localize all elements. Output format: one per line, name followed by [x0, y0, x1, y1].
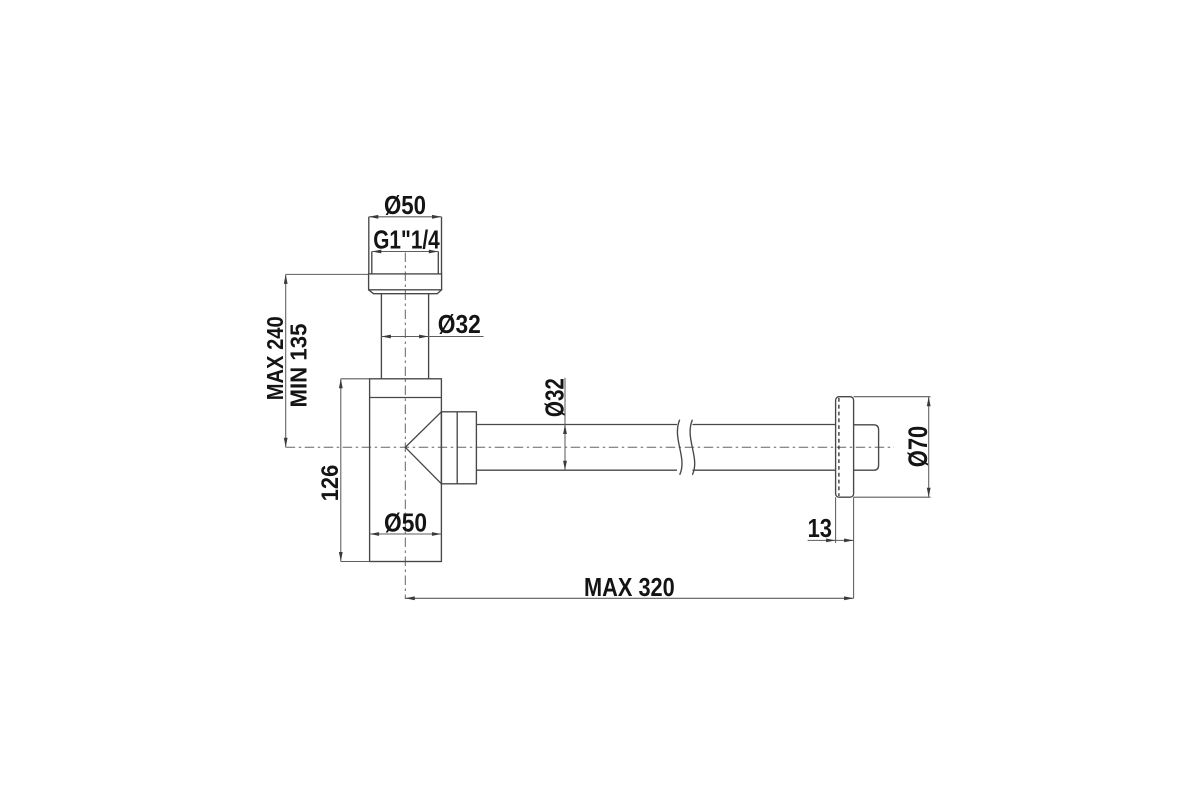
svg-text:MAX 320: MAX 320: [584, 574, 675, 602]
svg-text:Ø32: Ø32: [542, 378, 570, 417]
svg-text:Ø70: Ø70: [903, 426, 933, 468]
svg-text:Ø32: Ø32: [438, 311, 481, 339]
svg-text:MIN 135: MIN 135: [285, 323, 311, 407]
svg-text:MAX 240: MAX 240: [262, 316, 288, 400]
svg-text:Ø50: Ø50: [384, 192, 426, 220]
svg-text:13: 13: [808, 515, 832, 543]
svg-text:126: 126: [317, 465, 344, 502]
svg-text:Ø50: Ø50: [384, 510, 427, 538]
svg-text:G1"1/4: G1"1/4: [373, 227, 440, 255]
